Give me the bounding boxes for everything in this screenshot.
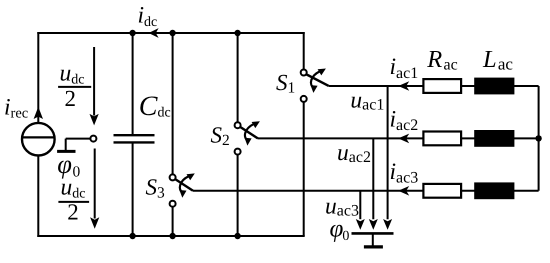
switch S2 top contact [235, 122, 241, 128]
wire: left vertical (top rail to current source) [37, 32, 39, 124]
junction dot top rail / S3 [169, 30, 175, 36]
svg-text:Rac: Rac [426, 46, 457, 74]
svg-text:idc: idc [138, 2, 158, 30]
svg-text:iac1: iac1 [390, 54, 419, 82]
capacitor C_dc bottom plate [114, 141, 155, 143]
svg-text:uac1: uac1 [350, 88, 384, 114]
switch S1 toggle arc [311, 72, 320, 89]
wire: S2 column lower [237, 155, 239, 236]
wire: phase 2 row [258, 137, 539, 139]
wire: bottom DC rail [37, 235, 304, 237]
wire: left vertical (current source to bottom rail) [37, 155, 39, 237]
switch S1 arc arrowhead up [318, 69, 326, 76]
wire: capacitor branch lower [132, 143, 134, 236]
inductor L_ac phase 3 [474, 182, 514, 199]
switch S3 toggle arc [180, 176, 189, 193]
ground bar long [352, 232, 394, 235]
switch S2 blade [240, 127, 258, 139]
i_dc arrowhead on top rail [149, 28, 159, 38]
switch S3 bottom contact [170, 201, 176, 207]
switch S1 blade [306, 74, 329, 86]
svg-text:Cdc: Cdc [139, 91, 171, 122]
svg-text:udc: udc [60, 60, 85, 87]
wire: top DC rail [37, 32, 304, 34]
junction dot top rail / S2 [234, 30, 240, 36]
ground bar short [364, 245, 383, 248]
midpoint tap: open node circle [90, 136, 96, 142]
svg-text:iac3: iac3 [390, 159, 419, 187]
wire: S2 column upper [237, 32, 239, 122]
midpoint tap wire vertical [65, 139, 67, 150]
wire: right AC rail [538, 86, 540, 191]
fraction bar lower [58, 201, 89, 203]
junction dot bottom rail / S3 [169, 233, 175, 239]
switch S3 arc arrowhead up [187, 173, 195, 180]
switch S2 arc arrowhead up [252, 121, 260, 128]
switch S1 top contact [301, 70, 307, 76]
svg-text:irec: irec [4, 94, 28, 121]
junction dot bottom rail / S2 [234, 233, 240, 239]
resistor R_ac phase 1 [423, 79, 461, 93]
u_ac2 voltage arrow [369, 138, 378, 229]
wire: phase 1 row [329, 85, 539, 87]
inductor L_ac phase 2 [474, 130, 514, 147]
wire: S1 column upper [303, 32, 305, 69]
switch S2 toggle arc [245, 124, 254, 141]
switch S3 top contact [170, 174, 176, 180]
wire: phase 3 row [193, 190, 539, 192]
svg-text:S3: S3 [146, 175, 166, 202]
i_ac1 arrowhead [398, 81, 409, 91]
i_ac2 arrowhead [398, 134, 409, 144]
current source horizontal bar [22, 136, 54, 138]
switch S1 arc arrowhead down [311, 85, 318, 93]
capacitor C_dc top plate [114, 134, 155, 136]
fraction bar upper [58, 86, 91, 88]
svg-text:2: 2 [67, 200, 79, 225]
wire: S1 column lower [303, 102, 305, 236]
i_ac3 arrowhead [398, 186, 409, 196]
midpoint tap reference bar [57, 150, 75, 153]
switch S3 arc arrowhead down [179, 190, 186, 198]
u_ac3 voltage arrow [356, 191, 365, 230]
junction dot top rail / capacitor [129, 30, 135, 36]
resistor R_ac phase 2 [423, 132, 461, 146]
switch S2 bottom contact [235, 149, 241, 155]
switch S3 blade [175, 179, 193, 191]
midpoint tap wire horizontal [66, 138, 91, 140]
svg-text:S1: S1 [276, 70, 295, 97]
u_dc/2 lower arrow [90, 149, 99, 229]
i_rec arrowhead [34, 107, 43, 119]
svg-text:iac2: iac2 [390, 106, 419, 134]
wire: S3 column upper [172, 32, 174, 174]
junction dot bottom rail / capacitor [129, 233, 135, 239]
junction dot right rail / phase 2 [535, 135, 541, 141]
current source I_rec circle [22, 123, 55, 156]
u_dc/2 upper arrow [90, 47, 99, 125]
switch S2 arc arrowhead down [245, 138, 252, 146]
u_ac1 voltage arrow [383, 86, 392, 230]
resistor R_ac phase 3 [423, 184, 461, 198]
wire: capacitor branch upper [132, 33, 134, 134]
wire: S3 column lower [172, 207, 174, 236]
svg-text:Lac: Lac [482, 46, 513, 74]
ground stub [372, 233, 374, 246]
svg-text:S2: S2 [211, 122, 230, 149]
svg-text:2: 2 [65, 86, 77, 111]
svg-text:uac2: uac2 [337, 140, 371, 166]
switch S1 bottom contact [301, 96, 307, 102]
inductor L_ac phase 1 [474, 78, 514, 95]
